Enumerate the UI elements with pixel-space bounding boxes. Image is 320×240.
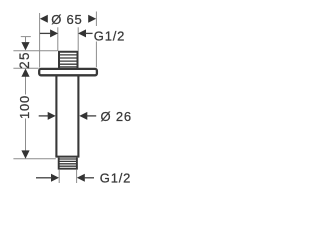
svg-text:100: 100	[17, 95, 32, 119]
svg-text:25: 25	[17, 51, 32, 69]
svg-text:G1/2: G1/2	[94, 29, 125, 44]
svg-text:Ø 26: Ø 26	[101, 109, 132, 124]
svg-text:Ø 65: Ø 65	[51, 12, 82, 27]
svg-text:G1/2: G1/2	[100, 170, 131, 185]
